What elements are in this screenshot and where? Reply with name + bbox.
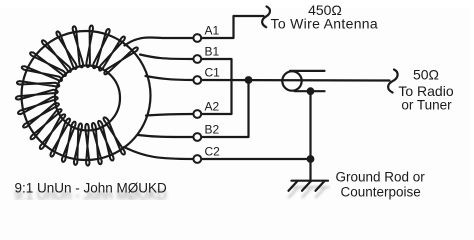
wire toroid to A1 <box>125 37 194 45</box>
wire A1 to antenna break <box>202 16 264 38</box>
toroid core T1 inner circle <box>55 66 120 131</box>
wire B1 to A2 jumper <box>202 59 232 114</box>
terminal A2 <box>193 110 201 118</box>
wire toroid to A2 <box>146 114 193 116</box>
terminal C1 <box>193 76 201 84</box>
svg-text:50Ω: 50Ω <box>413 67 439 83</box>
wire C1 to coax center conductor <box>202 79 390 82</box>
junction dot C1/B2 <box>245 76 253 84</box>
svg-text:B2: B2 <box>205 123 220 137</box>
svg-text:To Wire Antenna: To Wire Antenna <box>271 16 379 32</box>
svg-text:Counterpoise: Counterpoise <box>341 185 421 200</box>
svg-text:9:1 UnUn - John MØUKD: 9:1 UnUn - John MØUKD <box>15 181 168 196</box>
svg-text:C2: C2 <box>205 145 221 159</box>
wire break squiggle at radio feed <box>388 70 397 93</box>
svg-text:A1: A1 <box>205 24 220 38</box>
svg-text:A2: A2 <box>205 100 220 114</box>
wire toroid to C1 <box>146 76 194 80</box>
ground rod symbol <box>289 181 329 191</box>
terminal B1 <box>193 55 201 63</box>
toroid core T1 outer circle <box>22 31 151 160</box>
svg-text:or Tuner: or Tuner <box>401 98 452 113</box>
wire toroid to C2 <box>124 147 193 159</box>
svg-text:Ground Rod or: Ground Rod or <box>336 170 426 185</box>
wire break squiggle at antenna <box>262 7 270 28</box>
wire C2 to ground junction <box>202 158 311 160</box>
terminal B2 <box>193 133 201 141</box>
terminal C2 <box>193 155 201 163</box>
toroid trifilar winding <box>16 26 138 166</box>
wire coax braid to ground <box>309 91 311 180</box>
svg-text:B1: B1 <box>205 45 220 59</box>
junction dot coax braid <box>307 87 315 95</box>
wire toroid to B1 <box>140 55 193 60</box>
coax jacket bottom line <box>295 90 325 92</box>
terminal A1 <box>193 34 201 42</box>
ground rod symbol shadow <box>289 187 329 197</box>
svg-text:C1: C1 <box>205 66 221 80</box>
wire toroid to B2 <box>138 135 193 137</box>
wire B2 up to C1 junction <box>202 80 249 137</box>
junction dot C2/ground <box>307 155 315 163</box>
coax loop circle <box>282 71 301 90</box>
coax jacket top line <box>290 70 325 72</box>
